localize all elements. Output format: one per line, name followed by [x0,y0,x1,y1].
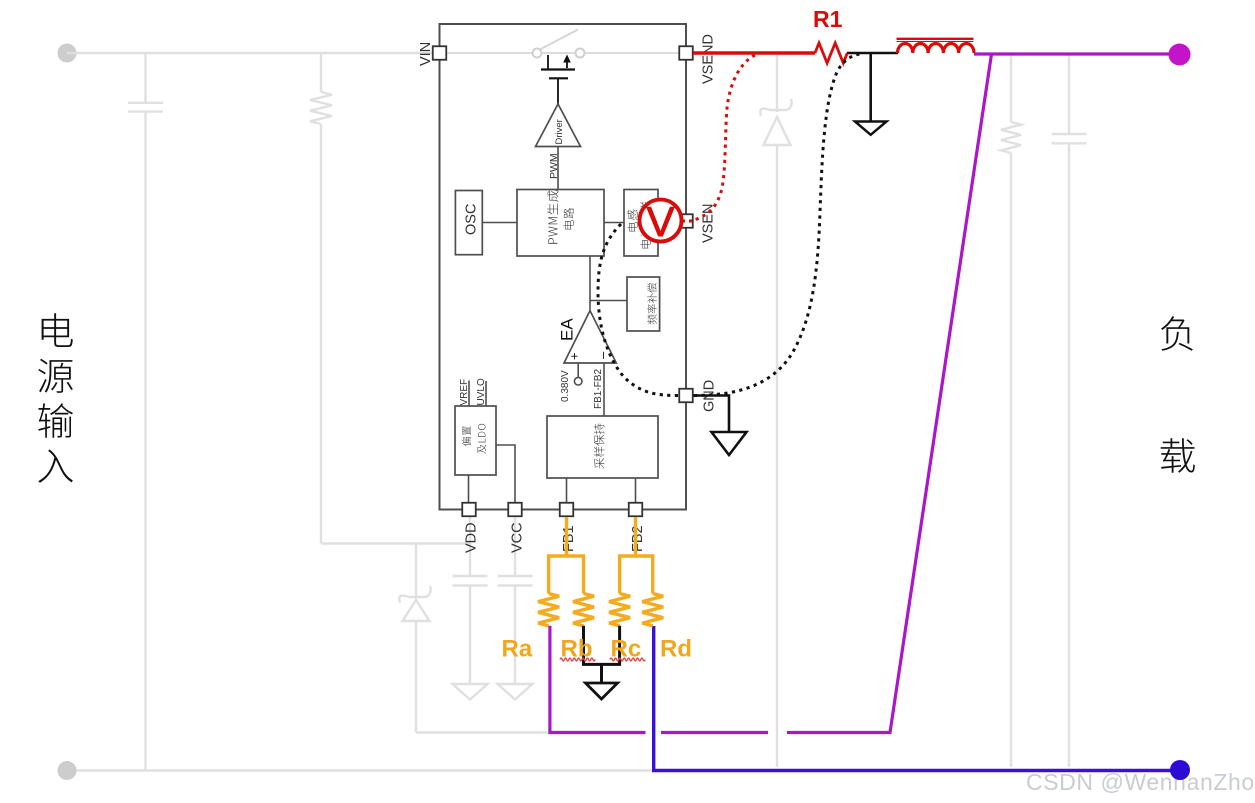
svg-text:R1: R1 [813,6,843,32]
svg-text:V: V [646,198,674,245]
svg-text:PWM: PWM [548,153,560,179]
svg-text:CSDN @WenhanZhou: CSDN @WenhanZhou [1026,769,1255,795]
pin FB2 [629,503,643,517]
wire vout sense diagonal (purple) [787,54,992,733]
block OSC [455,191,482,255]
wire UVLO stub [485,381,487,406]
svg-text:VDD: VDD [464,522,480,553]
svg-text:EA: EA [558,318,577,341]
svg-text:0.380V: 0.380V [560,370,571,402]
node input+ terminal [58,44,77,63]
label Rb underline [560,658,595,661]
resistor Rb [573,594,594,626]
resistor Ra [538,594,559,626]
wire FB2 stub (yellow) [634,517,637,556]
node input- terminal [58,761,77,780]
svg-text:VSEND: VSEND [701,34,717,84]
wire EA to freq comp [590,300,627,302]
label bias LDO [462,426,471,446]
inductor L1 [897,39,974,53]
svg-text:FB1-FB2: FB1-FB2 [593,369,604,409]
label frequency compensation [647,283,657,324]
wire sense loop right (black dotted) [694,54,860,396]
wire SH to FB1 pin [566,478,568,503]
op-amp Driver [536,104,581,147]
resistor Rc [609,594,630,626]
pin VDD [462,503,476,517]
pin VCC [508,503,522,517]
wire GND pin tail [693,396,729,433]
resistor Rd [642,594,663,626]
svg-text:–: – [595,351,610,359]
label inductor current sense [627,210,637,232]
wire Rin to VDD net [321,542,470,544]
svg-text:UVLO: UVLO [476,378,487,405]
pin VSEN [679,214,693,228]
capacitor Cout (grey) [1052,55,1087,767]
svg-text:VREF: VREF [459,379,470,406]
capacitor Cvcc [498,517,533,684]
wire OSC to PWM [482,222,517,224]
svg-text:FB2: FB2 [630,525,646,552]
wire Ra to vout sense (purple) [550,626,646,733]
wire D1 gnd jog [416,731,551,733]
wire SW node to ground [869,53,872,122]
ground Cvdd (grey) [453,684,488,700]
node vout- terminal [1170,760,1190,780]
switch contact right [576,49,585,58]
zener D1 (grey) [399,544,430,733]
resistor Rload (grey) [1001,55,1021,767]
op-amp EA [564,311,616,363]
resistor R1 [815,43,847,63]
wire FB2 fork (yellow) [620,556,653,594]
switch contact left [533,49,542,58]
wire vout top (purple) [974,52,1170,55]
wire FB1 stub (yellow) [565,517,568,556]
wire VREF stub [468,381,470,407]
wire FB1 fork (yellow) [549,556,584,594]
wire vout sense mid (purple) [661,731,768,734]
label PWM generator [547,190,558,243]
wire VSEND output (red) [693,51,815,54]
wire EA- input [603,363,605,416]
block frequency compensation [627,277,660,331]
block PWM generator [517,190,604,257]
IC boundary U1 [440,24,687,510]
ground Cvcc (grey) [498,684,533,700]
wire bias to VCC pin [496,445,515,503]
transistor M1 pass PMOS [541,55,575,104]
svg-text:VSEN: VSEN [701,204,717,244]
label power input [38,313,73,482]
svg-text:Driver: Driver [554,119,565,144]
svg-text:VCC: VCC [510,522,526,553]
node 0.380V ref [574,377,582,385]
pin VIN [433,46,447,60]
wire sense loop left (black dotted) [598,224,679,396]
pin GND [679,389,693,403]
block bias LDO [455,406,496,475]
ground SW node [855,122,887,135]
label Rc underline [610,658,645,661]
node vout+ terminal [1169,44,1191,66]
wire VIN-VSEND internal (off path) [446,52,679,54]
wire bias to VDD pin [468,475,470,503]
wire Rd to return (blue) [654,626,1171,771]
wire Rb Rc to ground [584,626,620,683]
wire bottom rail [67,769,660,771]
svg-text:FB1: FB1 [561,525,577,552]
wire voltmeter sense (red dotted) [694,55,755,220]
wire PWM to sense block [604,222,624,224]
svg-text:Rd: Rd [660,636,692,663]
wire Driver to PWM block [557,147,559,190]
wire R1 to L1 (black) [847,52,898,55]
ground GND pin [712,432,747,455]
wire EA+ to vref [577,363,579,377]
svg-text:+: + [567,352,582,360]
label load [1161,316,1195,473]
wire PWM to EA [589,256,591,311]
voltmeter V1 [640,200,682,242]
wire input top rail [67,52,433,54]
svg-text:Ra: Ra [502,636,533,663]
svg-text:VIN: VIN [418,42,434,66]
label sample hold [594,424,605,469]
resistor Rin input [310,53,332,544]
block sample hold [547,416,658,478]
wire voltmeter to VSEN pin (red dotted) [682,220,694,223]
ground divider [586,683,618,699]
block inductor current sense [624,190,658,257]
switch lever (grey) [539,30,578,51]
pin VSEND [679,46,693,60]
pin FB1 [560,503,574,517]
zener D2 output (grey) [760,55,791,767]
capacitor Cin input [128,53,163,770]
capacitor Cvdd [453,517,488,684]
wire SH to FB2 pin [635,478,637,503]
svg-text:OSC: OSC [464,204,480,235]
